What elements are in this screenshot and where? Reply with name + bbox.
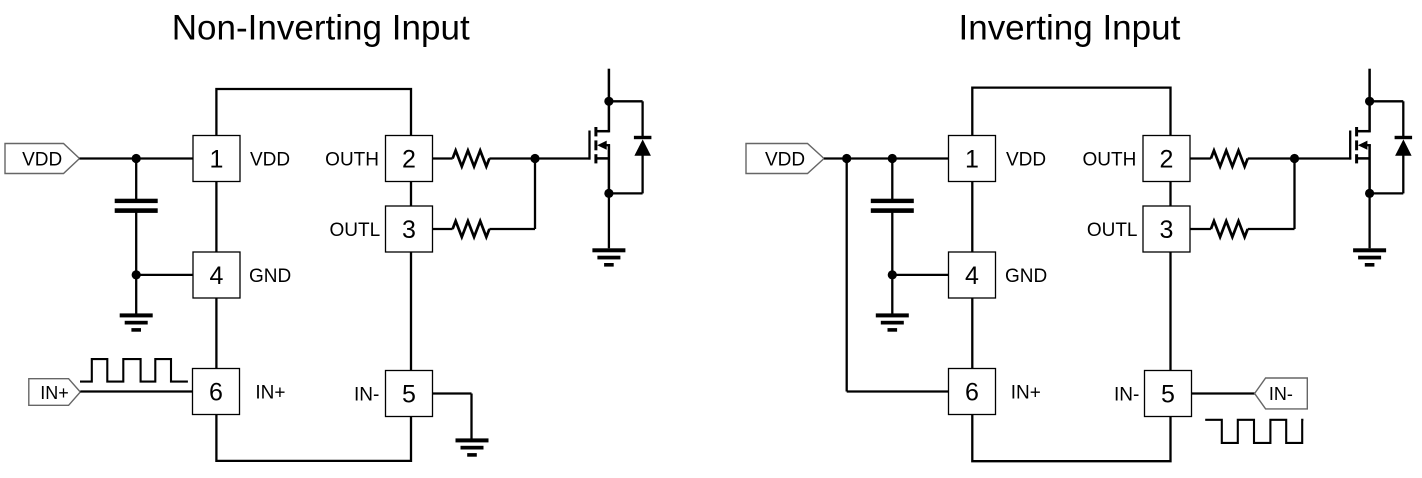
wire Q2 diode cathode lead (1402, 101, 1404, 136)
pin box 5 (right IC) (1145, 371, 1192, 417)
net flag IN- (right) (1255, 378, 1308, 409)
resistor R2 (OUTL, left) (453, 221, 490, 237)
wire VDD flag to pin 1 (80, 157, 194, 159)
transistor Q1 source tab (596, 157, 609, 160)
wire Q1 diode cathode lead (641, 101, 643, 136)
svg-text:3: 3 (1160, 216, 1174, 244)
transistor Q2 body arrow (1358, 141, 1371, 150)
wire Q1 drain to diode (609, 100, 643, 102)
net flag VDD (right) (746, 144, 824, 174)
wire tie to pin 6 (right) (847, 390, 949, 392)
ground below C2 (876, 313, 909, 331)
wire pin 2 to R1 (433, 157, 453, 159)
resistor R3 (OUTH, right) (1211, 151, 1248, 167)
pin box 3 (left IC) (386, 206, 433, 252)
resistor R1 (OUTH, left) (453, 151, 490, 167)
svg-text:OUTH: OUTH (1082, 149, 1136, 170)
transistor Q2 channel segments (1355, 127, 1358, 163)
ground at pin 5 (left) (456, 438, 489, 456)
svg-text:VDD: VDD (22, 149, 62, 170)
pin box 4 (right IC) (949, 252, 996, 298)
net flag IN+ (left) (29, 379, 81, 406)
transistor Q2 drain tab (1357, 130, 1370, 133)
svg-text:VDD: VDD (250, 149, 290, 170)
wire pin 3 to R2 (433, 228, 453, 230)
svg-text:3: 3 (402, 216, 416, 244)
svg-text:1: 1 (965, 146, 979, 174)
node IN- waveform (right) (1205, 420, 1303, 443)
net flag VDD (left) (5, 144, 80, 174)
IC U1 body outline (216, 89, 411, 461)
wire Q2 source to ground (1368, 193, 1370, 248)
wire R2 to riser (489, 228, 535, 230)
junction VDD/C1 (132, 154, 141, 163)
wire pin 2 to R3 (1190, 157, 1211, 159)
junction C1/GND (132, 270, 141, 279)
svg-text:4: 4 (210, 262, 224, 290)
wire Q1 source to ground (608, 193, 610, 248)
capacitor C1 (115, 199, 158, 213)
svg-text:VDD: VDD (765, 149, 805, 170)
wire C2 to GND node (right) (891, 213, 893, 275)
svg-text:1: 1 (210, 146, 224, 174)
wire VDD flag to pin 1 (right) (824, 157, 949, 159)
transistor Q1 body arrow (597, 141, 610, 150)
diode Q1 body diode (634, 136, 652, 156)
svg-text:GND: GND (249, 266, 291, 287)
svg-text:6: 6 (209, 379, 223, 407)
transistor Q2 source tab (1357, 157, 1370, 160)
svg-text:OUTL: OUTL (330, 220, 381, 241)
svg-text:2: 2 (402, 146, 416, 174)
junction Q2 source node (1365, 189, 1374, 198)
pin box 3 (right IC) (1143, 206, 1190, 252)
capacitor C2 (871, 199, 914, 213)
wire IN+ flag to pin 6 (80, 390, 192, 392)
svg-text:GND: GND (1005, 266, 1047, 287)
svg-text:VDD: VDD (1006, 149, 1046, 170)
transistor Q1 channel segments (594, 127, 597, 163)
svg-text:Non-Inverting Input: Non-Inverting Input (172, 9, 470, 48)
pin box 5 (left IC) (386, 371, 433, 417)
junction gate node (left) (530, 154, 539, 163)
svg-text:IN-: IN- (354, 384, 379, 405)
svg-text:4: 4 (965, 262, 979, 290)
ground below C1 (120, 313, 153, 331)
transistor Q2 source/body lead (1368, 144, 1371, 193)
pin box 6 (left IC) (193, 369, 240, 415)
wire VDD node to C2 (891, 159, 893, 200)
svg-text:5: 5 (1161, 381, 1175, 409)
wire OUTL riser to gate node (534, 159, 536, 230)
svg-text:IN+: IN+ (1011, 382, 1041, 403)
node IN+ waveform (left) (80, 359, 188, 382)
wire Q2 source to diode (1370, 192, 1404, 194)
transistor Q2 drain stub (1368, 69, 1371, 133)
wire R3 to gate node (right) (1248, 157, 1295, 159)
svg-text:IN-: IN- (1269, 384, 1293, 404)
wire GND node to pin 4 (right) (892, 274, 948, 276)
wire Q1 diode anode lead (641, 155, 643, 193)
svg-text:5: 5 (402, 381, 416, 409)
wire Q1 source to diode (609, 192, 643, 194)
transistor Q1 source/body lead (608, 144, 611, 193)
pin box 2 (right IC) (1143, 136, 1190, 182)
junction gate node (right) (1290, 154, 1299, 163)
transistor Q1 drain tab (596, 130, 609, 133)
wire VDD tie down to IN+ level (846, 159, 848, 392)
wire C1 to GND node (135, 213, 137, 275)
svg-text:2: 2 (1160, 146, 1174, 174)
wire IN- drop (470, 394, 472, 440)
junction Q1 drain node (604, 97, 613, 106)
wire gate node to Q1 gate (535, 157, 591, 159)
resistor R4 (OUTL, right) (1211, 221, 1248, 237)
pin box 1 (right IC) (949, 136, 996, 182)
wire VDD node to C1 (135, 159, 137, 200)
IC U2 body outline (972, 88, 1170, 462)
wire GND node to pin 4 (136, 274, 193, 276)
wire GND node to ground (right) (891, 275, 893, 315)
junction Q1 source node (604, 189, 613, 198)
svg-text:IN-: IN- (1114, 384, 1139, 405)
wire pin 3 to R4 (1190, 228, 1211, 230)
wire GND node to ground (135, 275, 137, 315)
svg-text:IN+: IN+ (255, 382, 285, 403)
diode Q2 body diode (1395, 136, 1413, 156)
ground at Q1 source (592, 248, 625, 266)
transistor Q2 gate bar (1349, 131, 1351, 160)
wire R1 to gate node (489, 157, 535, 159)
transistor Q1 gate bar (588, 131, 590, 160)
pin box 2 (left IC) (386, 136, 433, 182)
pin box 6 (right IC) (949, 369, 996, 415)
wire Q2 drain to diode (1370, 100, 1404, 102)
wire gate node to Q2 gate (1295, 157, 1352, 159)
pin box 1 (left IC) (193, 136, 240, 182)
wire pin 5 to ground drop (433, 392, 472, 394)
ground at Q2 source (1353, 248, 1386, 266)
junction VDD/IN+ tie (right) (842, 154, 851, 163)
wire OUTL riser to gate node (right) (1293, 159, 1295, 230)
junction C2/GND (right) (888, 270, 897, 279)
svg-text:OUTH: OUTH (325, 149, 379, 170)
svg-text:IN+: IN+ (40, 383, 69, 403)
junction Q2 drain node (1365, 97, 1374, 106)
svg-text:Inverting Input: Inverting Input (959, 9, 1181, 48)
junction VDD/C2 (right) (888, 154, 897, 163)
wire R4 to riser (right) (1248, 228, 1295, 230)
svg-text:OUTL: OUTL (1087, 220, 1138, 241)
transistor Q1 drain stub (608, 69, 611, 133)
svg-text:6: 6 (965, 379, 979, 407)
wire Q2 diode anode lead (1402, 155, 1404, 193)
pin box 4 (left IC) (193, 252, 240, 298)
wire pin 5 to IN- flag (1192, 392, 1255, 394)
